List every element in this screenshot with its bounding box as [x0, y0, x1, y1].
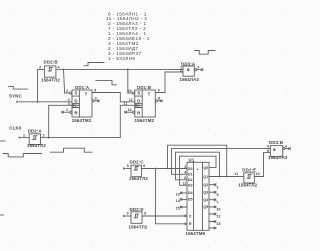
NC marks U1 right pins [214, 184, 216, 229]
svg-text:D5: D5 [188, 198, 193, 202]
U1 left cell labels [188, 167, 193, 226]
bubble S DD1:B [132, 92, 134, 94]
bubble S DD1:A [70, 92, 72, 94]
DD2:B hysteresis symbol [48, 67, 52, 71]
svg-text:8: 8 [144, 212, 146, 216]
U1 left pin numbers [176, 165, 186, 226]
wire clock to DD1:A C [49, 105, 80, 137]
wire Q' DD1:A stub [94, 100, 98, 102]
NC mark DD3:B out [289, 148, 291, 150]
svg-text:9: 9 [184, 214, 186, 218]
svg-text:1564ТЛ2: 1564ТЛ2 [129, 176, 148, 181]
svg-text:11: 11 [234, 172, 238, 176]
svg-text:9: 9 [158, 88, 160, 92]
gate DD3:A box [183, 66, 194, 76]
svg-text:1564ТМ2: 1564ТМ2 [72, 118, 92, 123]
svg-text:S: S [137, 91, 140, 96]
wire U1 Q1 to DD2:E [209, 176, 238, 178]
svg-text:10: 10 [128, 89, 132, 93]
svg-text:3: 3 [197, 65, 199, 69]
edge artifact dash left y215 [0, 214, 4, 216]
svg-text:Q0: Q0 [203, 166, 208, 170]
svg-text:14: 14 [176, 199, 180, 203]
svg-text:12: 12 [129, 98, 133, 102]
wire loop1 U1 D0 feedback [168, 145, 227, 176]
svg-text:SYNC: SYNC [9, 94, 22, 99]
gate DD2:D box [131, 212, 142, 224]
svg-text:CLK0: CLK0 [9, 126, 21, 131]
wire main net to DD3:A pin1 [64, 68, 184, 70]
svg-text:5: 5 [127, 164, 129, 168]
register U1 box [187, 162, 209, 230]
svg-text:1564ТМ2: 1564ТМ2 [135, 118, 155, 123]
svg-text:1564ТЛ2: 1564ТЛ2 [129, 225, 148, 230]
junction DD2:C out [155, 168, 157, 170]
DD2:C hysteresis symbol [134, 167, 138, 171]
svg-text:Т: Т [85, 92, 88, 97]
U1 right pin stubs NC [209, 185, 215, 228]
svg-text:Q4: Q4 [203, 198, 208, 202]
svg-text:13: 13 [176, 193, 180, 197]
wire DD2:E input stub [238, 176, 244, 178]
CLK0 input arrow [19, 136, 22, 138]
svg-text:DD1:B: DD1:B [137, 85, 151, 90]
DD2:D input arrow [123, 215, 126, 217]
svg-text:DD1:A: DD1:A [75, 85, 90, 90]
svg-text:1: 1 [66, 108, 68, 112]
wire clock to DD1:B C [49, 105, 143, 137]
svg-text:1 - 533ЛН6: 1 - 533ЛН6 [108, 56, 135, 61]
bubble R DD1:A [70, 111, 72, 113]
DD1:B C dynamic mark [135, 104, 137, 107]
DD2:A hysteresis symbol [33, 136, 37, 140]
svg-text:2: 2 [43, 133, 45, 137]
wire DD2:A output [41, 137, 49, 139]
NC mark DD1:A Q' [98, 100, 100, 102]
wire DD1:A R stub NC [63, 111, 70, 113]
wire up to DD2:B input [38, 69, 45, 101]
wire DD2:B output [56, 68, 64, 70]
U1 right pin numbers [217, 185, 221, 226]
svg-text:5: 5 [267, 149, 269, 153]
gate DD2:A box [29, 134, 40, 145]
svg-text:1564ТЛ2: 1564ТЛ2 [238, 182, 257, 187]
NC mark DD1:B R [125, 111, 127, 113]
wire DD2:C input [126, 168, 131, 170]
svg-text:Q5: Q5 [203, 205, 208, 209]
wire DD2:E out to DD3:B pin5 [255, 152, 271, 176]
NC marks U1 left pins [180, 192, 182, 208]
svg-text:U1: U1 [189, 157, 195, 162]
NC mark DD1:A R [62, 111, 64, 113]
svg-text:8: 8 [158, 96, 160, 100]
waveform above SYNC [9, 86, 28, 89]
svg-text:1564ЛА3: 1564ЛА3 [180, 77, 200, 82]
svg-text:1564ТМ9: 1564ТМ9 [186, 231, 206, 236]
gate DD2:E box [244, 173, 255, 183]
DD1:B cell letters [137, 91, 150, 116]
svg-text:5: 5 [94, 88, 96, 92]
svg-text:DD2:D: DD2:D [130, 207, 144, 212]
U1 right cell labels [203, 166, 208, 209]
svg-text:13: 13 [128, 108, 132, 112]
wire CLK0 to DD2:A [22, 137, 30, 139]
wire DD3:B out stub [285, 148, 290, 150]
wire DD2:C net down to U1 R [156, 169, 188, 224]
NC mark DD1:B Q' [161, 100, 163, 102]
svg-text:15: 15 [176, 207, 180, 211]
svg-text:6: 6 [285, 144, 287, 148]
wire DD2:D output to U1 C [142, 215, 187, 217]
svg-text:10: 10 [256, 172, 260, 176]
bubble out DD3:A [195, 69, 197, 71]
svg-text:7: 7 [217, 200, 219, 204]
DD1:A cell letters [74, 91, 87, 116]
wire down to DD1:B S [128, 69, 132, 93]
svg-text:DD2:B: DD2:B [44, 60, 58, 65]
bubble out DD3:B [283, 148, 285, 150]
DD2:C input arrow [123, 167, 126, 169]
svg-text:DD3:A: DD3:A [181, 61, 196, 66]
DD2:E hysteresis symbol [247, 175, 251, 179]
SYNC input arrow [16, 101, 19, 103]
wire Q' DD1:B stub [158, 100, 162, 102]
gate DD3:B box [270, 146, 282, 157]
waveform above DD3:A [195, 51, 215, 55]
waveform right of DD2:B [84, 63, 104, 66]
waveform above DD1:B [96, 80, 117, 84]
DD2:D hysteresis symbol [134, 214, 138, 218]
wire DD3:A out stub [197, 69, 202, 71]
svg-text:6: 6 [95, 96, 97, 100]
svg-text:Q1: Q1 [203, 175, 208, 179]
junction clock [48, 137, 50, 139]
waveform notch below DD2:A [3, 154, 42, 157]
svg-text:DD2:E: DD2:E [242, 168, 256, 173]
wire DD1:B Q to DD3:A pin2 [155, 72, 183, 93]
junction main/DD1:B S [127, 69, 129, 71]
svg-text:3: 3 [39, 65, 41, 69]
junction loop3 bottom [219, 176, 221, 178]
wire DD2:C output to U1 D0 [142, 168, 188, 170]
svg-text:9: 9 [127, 212, 129, 216]
U1 left pin stubs [181, 193, 187, 207]
grid dots [14, 13, 286, 246]
svg-text:Q3: Q3 [203, 191, 208, 195]
svg-text:R: R [189, 222, 192, 226]
svg-text:10: 10 [217, 208, 221, 212]
svg-text:15: 15 [217, 222, 221, 226]
svg-text:D4: D4 [188, 191, 193, 195]
svg-text:DD2:C: DD2:C [130, 160, 145, 165]
svg-text:1564ТЛ2: 1564ТЛ2 [27, 143, 46, 148]
junction loop1 bottom [226, 176, 228, 178]
svg-text:2: 2 [180, 69, 182, 73]
wire loop4 U1 D3 from Q0 [180, 156, 217, 185]
wire DD2:D input [126, 215, 131, 217]
svg-text:D1: D1 [188, 173, 193, 177]
NC mark DD3:A out [201, 69, 203, 71]
svg-text:Т: Т [148, 92, 151, 97]
svg-text:DD3:B: DD3:B [269, 140, 283, 145]
gate DD2:B box [45, 66, 56, 77]
wire SYNC to DD1:A D [19, 101, 72, 103]
svg-text:S: S [74, 91, 77, 96]
svg-text:D3: D3 [188, 184, 193, 188]
junction loop1 bottom left [167, 168, 169, 170]
edge artifact dash left y141 [0, 140, 5, 142]
svg-text:12: 12 [217, 215, 221, 219]
svg-text:3: 3 [184, 165, 186, 169]
wire DD1:B R stub NC [126, 111, 133, 113]
DD1:A C dynamic mark [72, 104, 74, 107]
flip-flop DD1:B box [135, 90, 156, 117]
parts list [106, 11, 150, 61]
svg-text:1: 1 [184, 222, 186, 226]
svg-text:4: 4 [66, 89, 68, 93]
svg-text:D2: D2 [188, 178, 193, 182]
svg-text:1: 1 [23, 133, 25, 137]
svg-text:1564ЛА3: 1564ЛА3 [268, 155, 288, 160]
svg-text:6: 6 [143, 164, 145, 168]
svg-text:DD2:A: DD2:A [28, 129, 43, 134]
gate DD2:C box [131, 165, 142, 177]
waveform pulse below DD2:A [50, 148, 92, 152]
svg-text:2: 2 [217, 185, 219, 189]
bubble Q' DD1:B [155, 100, 157, 102]
svg-text:D0: D0 [188, 167, 193, 171]
svg-text:4: 4 [58, 65, 60, 69]
svg-text:+: + [197, 167, 199, 171]
svg-text:C: C [189, 214, 192, 218]
wire DD1:A Q to DD1:B D [92, 93, 135, 102]
wire loop3 U1 D2 feedback [176, 152, 220, 180]
svg-text:11: 11 [124, 101, 128, 105]
junction SYNC/DD2:B [37, 101, 39, 103]
svg-text:5: 5 [217, 193, 219, 197]
svg-text:Q2: Q2 [203, 183, 208, 187]
bubble Q' DD1:A [92, 100, 94, 102]
wire loop2 U1 D1 to DD3:B pin4 [172, 149, 271, 175]
bubble R DD1:B [133, 111, 135, 113]
svg-text:1564ТЛ2: 1564ТЛ2 [41, 77, 60, 82]
flip-flop DD1:A box [72, 90, 92, 117]
junction DD2:B out [63, 69, 65, 71]
wire down to DD1:A S [64, 69, 70, 93]
